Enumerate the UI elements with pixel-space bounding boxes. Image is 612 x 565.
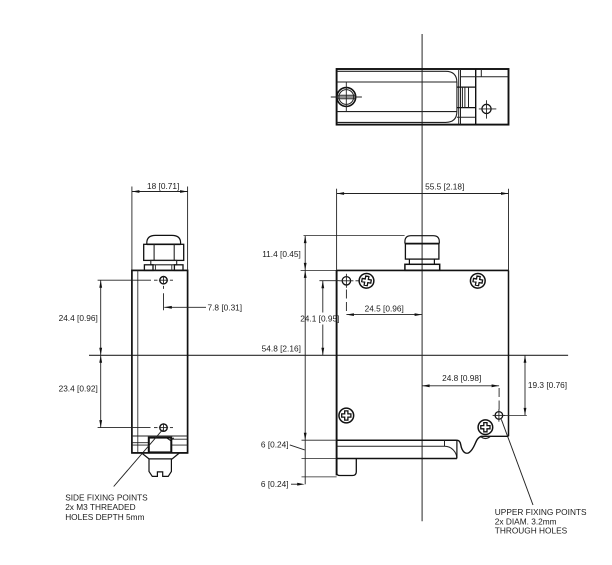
P4 boss arc below edge — [480, 436, 490, 438]
front top edge — [301, 269, 337, 271]
crosshair C2 — [495, 412, 503, 420]
svg-text:23.4 [0.92]: 23.4 [0.92] — [59, 384, 98, 394]
extension lines — [336, 189, 338, 271]
notch on block — [167, 438, 174, 440]
front connector nut — [405, 244, 439, 260]
foot bottom ext — [302, 476, 337, 478]
svg-text:24.1 [0.95]: 24.1 [0.95] — [300, 313, 339, 323]
side trapezoid — [142, 453, 180, 459]
side bottom edge — [132, 452, 142, 454]
side top screw dashed drop line — [163, 286, 165, 289]
extension vertical for 6 dims — [304, 440, 306, 484]
side bottom screw crosshair — [160, 424, 167, 431]
plate end vertical — [456, 440, 458, 458]
extension line top screw — [98, 279, 151, 281]
top view screw inner circle — [339, 90, 354, 105]
leader to upper fixing note — [501, 419, 533, 505]
horizontal centerline — [89, 354, 568, 356]
svg-text:24.5 [0.96]: 24.5 [0.96] — [365, 303, 404, 313]
top view hinge barrel box — [457, 86, 476, 88]
extension right of C2 — [503, 414, 527, 416]
S-curve flexure — [457, 436, 509, 453]
extension line connector top — [304, 235, 405, 237]
dim 24.8 — [422, 385, 499, 387]
side bottom bold block — [149, 438, 172, 453]
side connector nut — [144, 244, 184, 260]
phillips P4 — [478, 420, 493, 435]
dashed drop to C2 — [498, 388, 500, 410]
top view right block divider — [475, 69, 477, 125]
svg-text:2x M3 THREADED: 2x M3 THREADED — [65, 502, 135, 512]
top view inner rounded cover — [337, 71, 457, 122]
svg-text:24.8 [0.98]: 24.8 [0.98] — [442, 373, 481, 383]
side stem — [149, 459, 171, 477]
dim line 18 — [132, 191, 188, 193]
svg-text:6 [0.24]: 6 [0.24] — [261, 479, 289, 489]
C1 dashed drop — [345, 290, 347, 314]
top view hinge verticals — [458, 69, 460, 125]
svg-text:18 [0.71]: 18 [0.71] — [147, 181, 179, 191]
extension line left of C1 — [319, 280, 339, 282]
dim 23.4 — [100, 355, 102, 427]
svg-text:SIDE FIXING POINTS: SIDE FIXING POINTS — [65, 492, 148, 502]
top view right block top line — [461, 76, 509, 78]
dim 24.5 — [346, 314, 422, 316]
dim 19.3 — [524, 355, 526, 415]
leader 6 first — [290, 445, 305, 450]
side view inner vertical — [137, 270, 139, 453]
vertical centerline — [421, 34, 423, 521]
body bottom line + ext — [302, 439, 337, 441]
foot — [337, 459, 357, 476]
side top screw crosshair — [160, 277, 167, 284]
front left edge — [336, 270, 338, 475]
svg-text:7.8 [0.31]: 7.8 [0.31] — [208, 302, 243, 312]
svg-text:24.4 [0.96]: 24.4 [0.96] — [59, 313, 98, 323]
plate bottom line + ext — [302, 458, 337, 460]
svg-text:6 [0.24]: 6 [0.24] — [261, 439, 289, 449]
dim 54.8 — [304, 270, 306, 440]
phillips P3 — [339, 408, 354, 423]
svg-text:54.8 [2.16]: 54.8 [2.16] — [262, 344, 301, 354]
dim 11.4 — [304, 236, 306, 271]
top view screw slot lines — [337, 94, 355, 96]
side connector dome — [147, 235, 181, 244]
dim 24.4 — [100, 280, 102, 355]
phillips P1 — [358, 272, 375, 289]
extension line bottom screw — [98, 427, 151, 429]
side leader line — [114, 430, 163, 487]
crosshair C1 — [342, 277, 350, 285]
top view screw outer circle — [337, 88, 356, 107]
svg-text:11.4 [0.45]: 11.4 [0.45] — [262, 249, 301, 259]
svg-text:19.3 [0.76]: 19.3 [0.76] — [528, 380, 567, 390]
side bottom structure — [132, 435, 188, 437]
dim 24.1 — [322, 281, 324, 313]
side connector flange — [151, 260, 177, 264]
svg-text:THROUGH HOLES: THROUGH HOLES — [495, 525, 568, 535]
side view body — [132, 270, 188, 453]
plate inner line — [444, 440, 446, 446]
dimension line 55.5 — [337, 193, 509, 195]
svg-text:HOLES DEPTH 5mm: HOLES DEPTH 5mm — [65, 512, 144, 522]
dim 18 extension lines — [131, 187, 133, 271]
phillips P2 — [469, 272, 486, 289]
dim 7.8 leader — [164, 306, 206, 308]
front connector flange — [405, 264, 440, 270]
top view screw crosshair — [331, 96, 362, 98]
front connector dome — [405, 236, 439, 244]
fillet arc — [445, 446, 457, 458]
top view outer body — [337, 69, 509, 125]
leader 6 second — [291, 483, 298, 485]
svg-text:55.5 [2.18]: 55.5 [2.18] — [425, 182, 464, 192]
top view crosshair target — [482, 104, 491, 113]
side connector feet — [144, 265, 153, 271]
top view inner horizontal lines — [337, 81, 457, 83]
front right edge — [508, 270, 510, 436]
front connector neck — [408, 259, 410, 264]
